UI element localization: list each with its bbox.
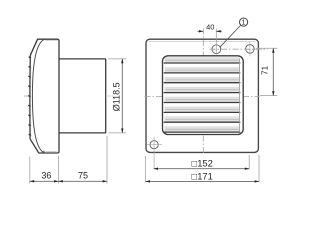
dim 152 line: [154, 168, 250, 170]
fan cover (side view): [30, 39, 59, 153]
hole top-right: [246, 45, 255, 54]
svg-text:1: 1: [242, 20, 246, 27]
balloon 1 leader: [220, 25, 241, 47]
louver shadow lines: [164, 63, 240, 132]
svg-text:□171: □171: [192, 171, 213, 182]
hole bottom-left center marks: [147, 137, 162, 169]
hole bottom-left: [150, 141, 158, 149]
svg-text:75: 75: [78, 170, 88, 180]
dim Ø118.5 line: [121, 59, 123, 133]
grille frame: [163, 56, 244, 135]
dim Ø118.5 extension lines: [108, 59, 126, 133]
dim 40 extension line: [215, 29, 217, 55]
grille inner frame lines: [239, 59, 241, 133]
cover inner curve: [32, 40, 44, 153]
fan duct (side view): [59, 59, 105, 133]
dim 171 line: [146, 180, 259, 182]
dim 40 arrows: [199, 30, 221, 32]
hole top-right center marks: [249, 42, 251, 57]
dim 36/75 extension lines: [30, 136, 107, 184]
svg-text:Ø118.5: Ø118.5: [111, 82, 121, 111]
dim 152 arrows: [154, 168, 250, 170]
front view horizontal centerline: [145, 95, 163, 97]
balloon 1: [240, 18, 248, 26]
plate inner top edge: [149, 40, 256, 42]
front view plate: [146, 39, 258, 152]
svg-text:40: 40: [206, 23, 214, 32]
dim 71 line: [272, 48, 274, 95]
dim 40 line: [197, 30, 221, 32]
hole top-left: [212, 45, 221, 54]
front view vertical centerline: [202, 29, 204, 57]
dim 171 extension lines: [146, 155, 259, 182]
dim 36/75 arrows: [30, 180, 107, 182]
svg-text:71: 71: [261, 65, 270, 75]
svg-text:□152: □152: [192, 158, 213, 169]
side view centerline: [24, 95, 113, 97]
dim Ø118.5 arrows: [121, 59, 123, 133]
dim 71 extension lines: [256, 48, 277, 95]
dim 152 extension line right: [248, 155, 250, 169]
grille louvers: [165, 57, 240, 132]
dim 36/75 line: [30, 180, 107, 182]
cover top notch: [30, 39, 37, 54]
cover louver ticks: [28, 57, 31, 136]
dim 171 arrows: [146, 180, 259, 182]
louver mid streaks: [165, 60, 238, 129]
cover bottom seam: [43, 151, 45, 153]
cover inner edge lines: [45, 41, 57, 152]
dim 71 arrows: [272, 48, 274, 95]
svg-text:36: 36: [41, 170, 51, 180]
holes centerline (top): [210, 48, 268, 50]
